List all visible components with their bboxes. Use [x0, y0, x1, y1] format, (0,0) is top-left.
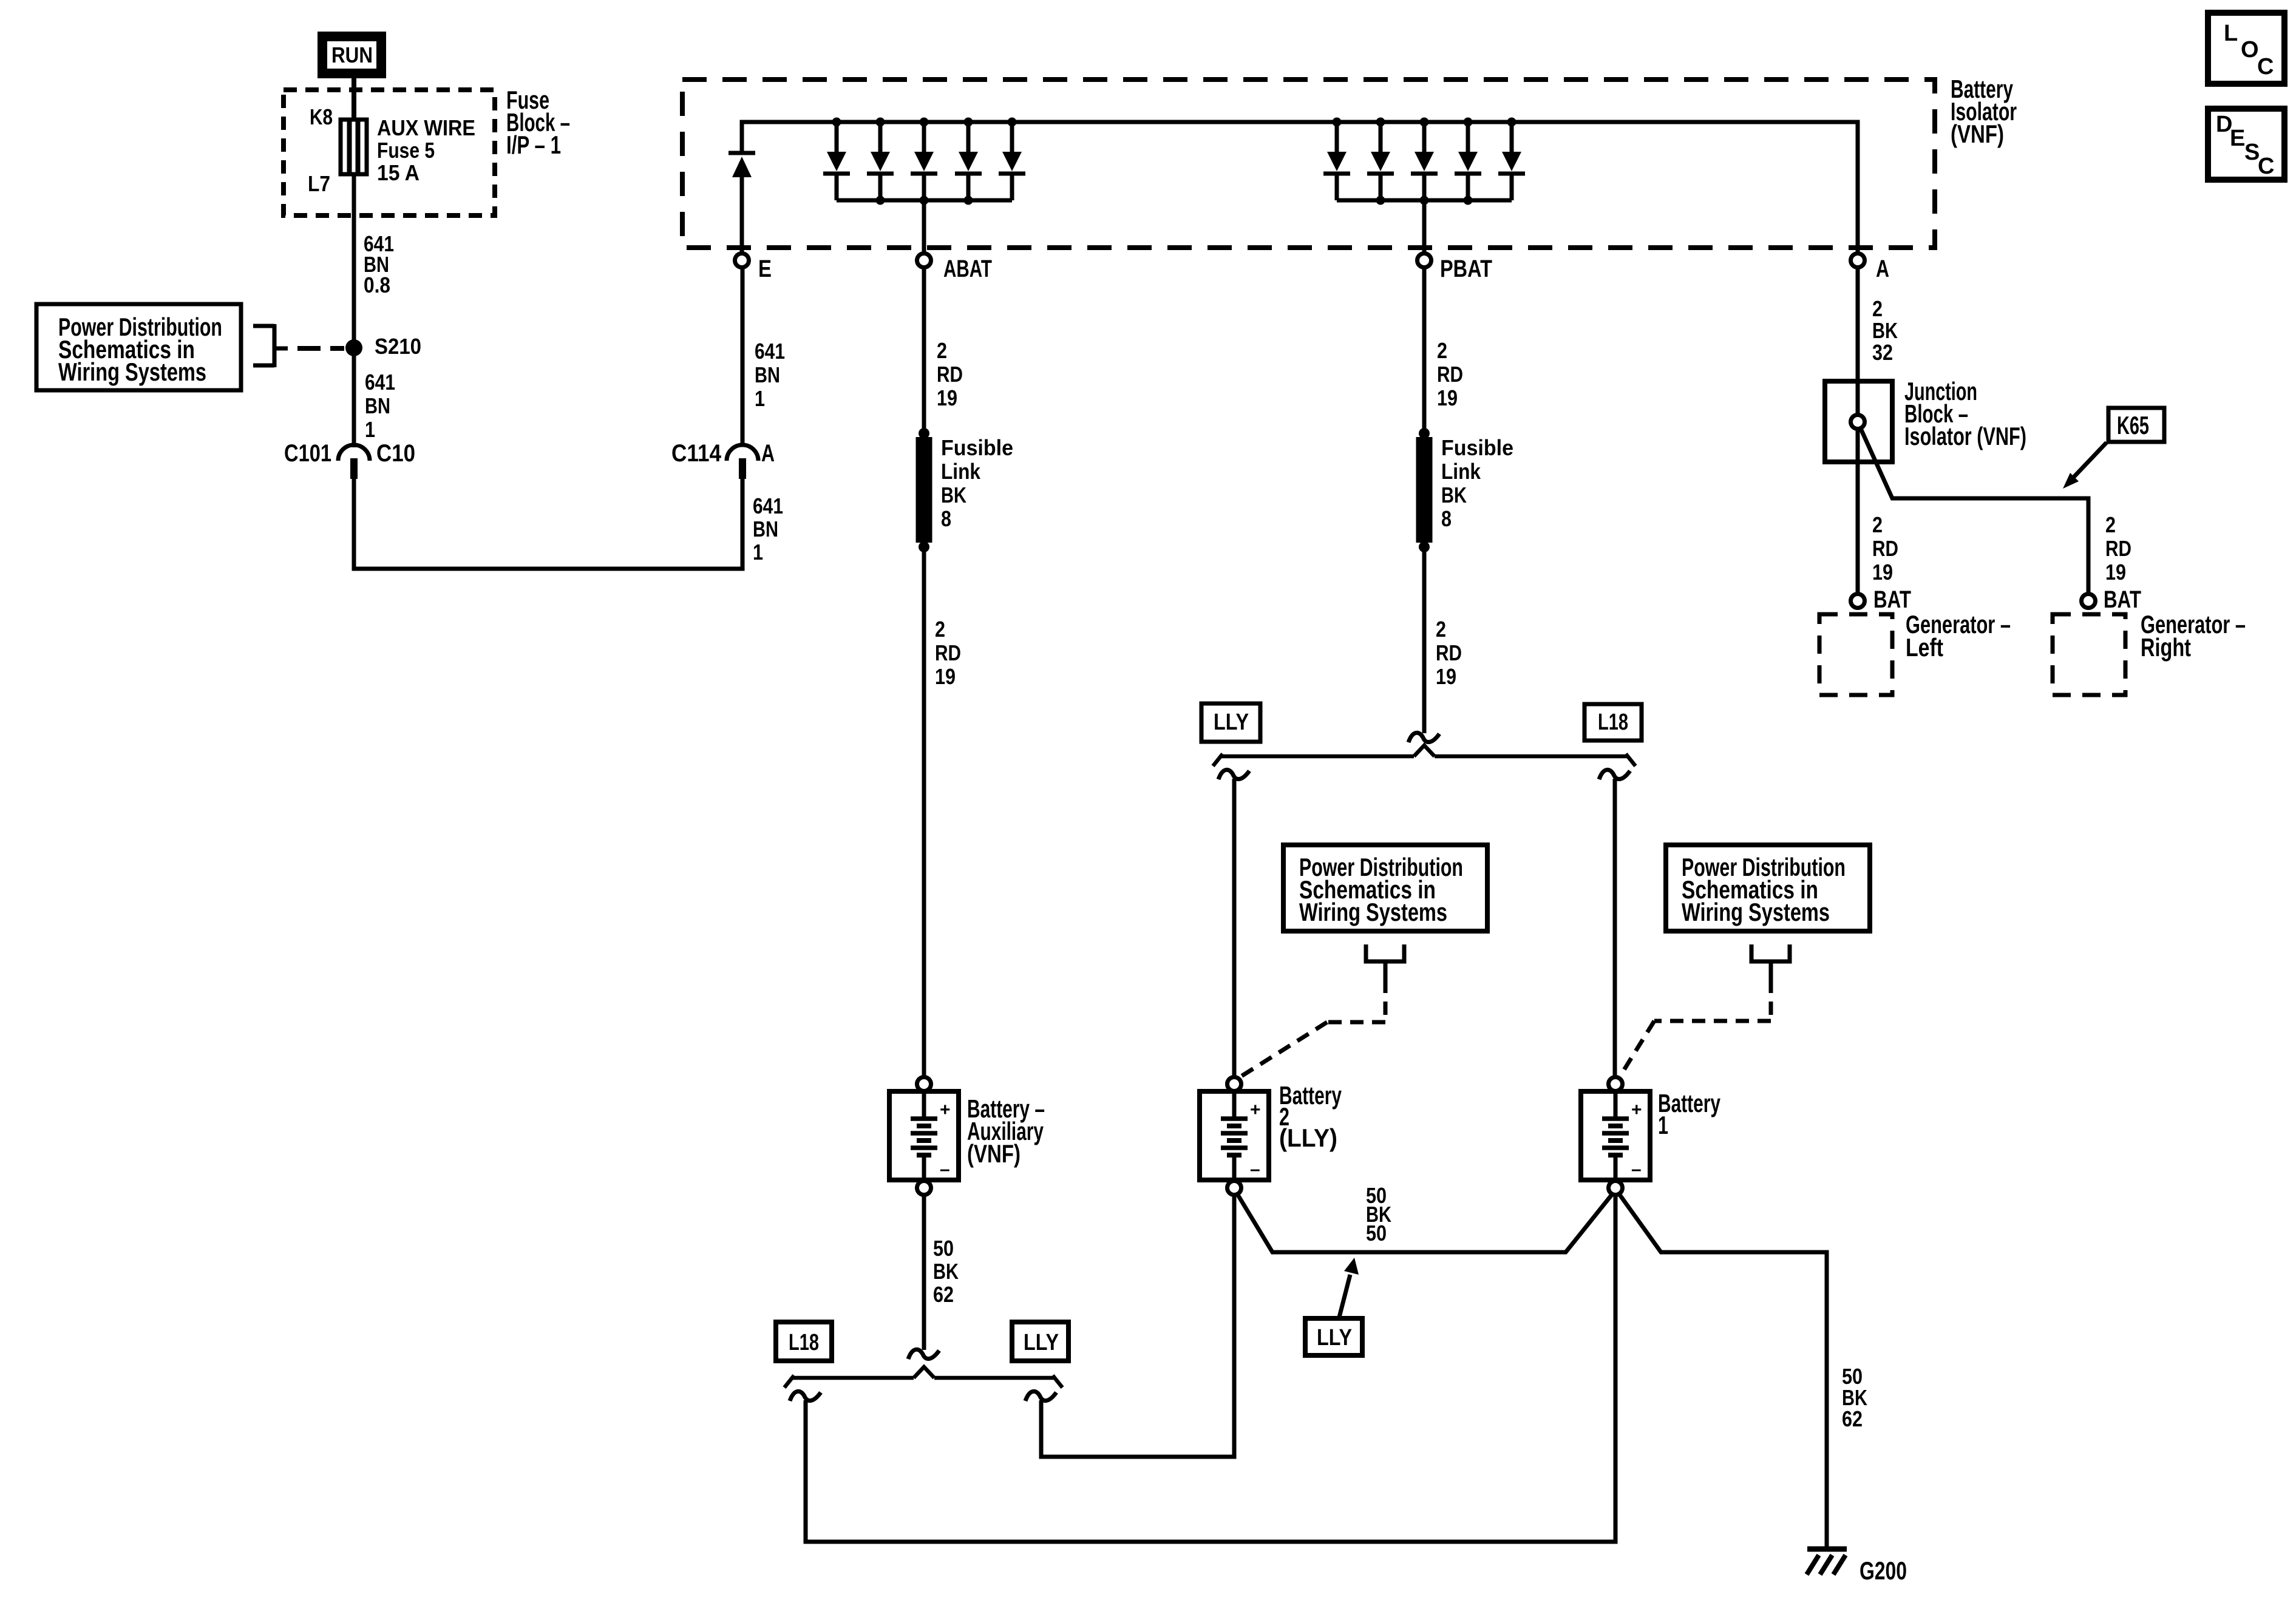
svg-text:I/P – 1: I/P – 1: [506, 131, 561, 159]
svg-text:Right: Right: [2141, 633, 2191, 662]
svg-text:–: –: [1631, 1159, 1642, 1179]
svg-text:C10: C10: [376, 440, 415, 467]
svg-text:1: 1: [753, 540, 763, 564]
svg-text:C114: C114: [671, 440, 722, 467]
svg-text:2: 2: [935, 617, 945, 642]
svg-text:50: 50: [933, 1236, 954, 1261]
svg-text:PBAT: PBAT: [1440, 256, 1492, 282]
svg-text:Fuse 5: Fuse 5: [377, 138, 435, 163]
svg-text:Wiring Systems: Wiring Systems: [1299, 898, 1447, 926]
svg-text:K8: K8: [310, 104, 333, 129]
svg-text:C: C: [2258, 154, 2274, 179]
svg-text:E: E: [758, 256, 772, 282]
svg-text:BN: BN: [755, 362, 780, 387]
svg-text:RD: RD: [1437, 362, 1463, 387]
svg-text:62: 62: [1842, 1406, 1863, 1431]
svg-text:(VNF): (VNF): [967, 1139, 1021, 1168]
svg-text:Link: Link: [941, 459, 981, 484]
svg-text:19: 19: [1436, 664, 1456, 689]
svg-text:BK: BK: [1872, 318, 1898, 343]
svg-text:L7: L7: [308, 171, 330, 196]
svg-text:Fusible: Fusible: [941, 435, 1013, 460]
svg-text:0.8: 0.8: [364, 273, 390, 297]
svg-text:C101: C101: [284, 440, 331, 467]
svg-text:50: 50: [1366, 1221, 1387, 1246]
svg-text:Link: Link: [1441, 459, 1481, 484]
svg-text:BAT: BAT: [2104, 586, 2141, 613]
svg-text:LLY: LLY: [1317, 1325, 1352, 1351]
svg-text:8: 8: [941, 506, 951, 531]
svg-text:2: 2: [937, 338, 947, 363]
svg-text:62: 62: [933, 1282, 954, 1307]
svg-text:19: 19: [1872, 560, 1893, 585]
svg-text:1: 1: [1658, 1111, 1668, 1139]
svg-text:ABAT: ABAT: [943, 256, 992, 282]
svg-text:RD: RD: [1436, 640, 1462, 665]
svg-text:641: 641: [753, 493, 783, 518]
svg-text:2: 2: [1436, 617, 1446, 642]
svg-text:Wiring Systems: Wiring Systems: [58, 358, 206, 386]
svg-text:RUN: RUN: [331, 42, 373, 67]
svg-text:RD: RD: [2105, 536, 2131, 561]
svg-text:LLY: LLY: [1024, 1330, 1059, 1355]
svg-text:2: 2: [1437, 338, 1447, 363]
svg-text:BN: BN: [365, 393, 390, 418]
svg-text:C: C: [2257, 54, 2274, 80]
svg-text:1: 1: [755, 386, 765, 411]
svg-text:15 A: 15 A: [377, 160, 419, 185]
svg-text:2: 2: [1872, 296, 1883, 321]
svg-text:641: 641: [365, 370, 395, 395]
svg-text:LLY: LLY: [1214, 710, 1249, 735]
svg-text:AUX WIRE: AUX WIRE: [377, 115, 475, 140]
svg-text:8: 8: [1441, 506, 1452, 531]
svg-text:G200: G200: [1860, 1556, 1907, 1585]
svg-text:BK: BK: [933, 1259, 959, 1284]
svg-text:Left: Left: [1906, 633, 1943, 662]
svg-text:O: O: [2241, 37, 2259, 63]
svg-text:Wiring Systems: Wiring Systems: [1682, 898, 1830, 926]
svg-text:BN: BN: [753, 517, 778, 541]
svg-text:K65: K65: [2117, 411, 2149, 439]
svg-text:RD: RD: [937, 362, 963, 387]
svg-text:32: 32: [1872, 340, 1893, 365]
svg-text:S210: S210: [375, 334, 421, 359]
svg-text:19: 19: [937, 385, 957, 410]
svg-text:A: A: [761, 440, 775, 467]
svg-text:RD: RD: [1872, 536, 1898, 561]
svg-text:19: 19: [935, 664, 956, 689]
svg-text:BK: BK: [1441, 483, 1467, 507]
svg-text:1: 1: [365, 417, 375, 442]
svg-text:Fusible: Fusible: [1441, 435, 1513, 460]
svg-text:(VNF): (VNF): [1951, 120, 2004, 148]
svg-text:(LLY): (LLY): [1279, 1124, 1337, 1152]
svg-text:19: 19: [1437, 385, 1458, 410]
svg-text:–: –: [1250, 1159, 1260, 1179]
svg-text:L18: L18: [789, 1330, 819, 1355]
svg-text:+: +: [1250, 1100, 1261, 1120]
svg-text:BAT: BAT: [1873, 586, 1911, 613]
svg-text:–: –: [940, 1159, 950, 1179]
svg-text:BK: BK: [941, 483, 966, 507]
svg-text:Isolator (VNF): Isolator (VNF): [1904, 422, 2026, 450]
svg-text:641: 641: [755, 339, 785, 364]
svg-text:E: E: [2230, 126, 2245, 151]
svg-text:+: +: [1631, 1100, 1642, 1120]
svg-text:L: L: [2224, 21, 2238, 46]
svg-text:2: 2: [2105, 512, 2116, 537]
svg-text:+: +: [940, 1100, 951, 1120]
svg-text:A: A: [1876, 256, 1889, 282]
svg-text:19: 19: [2105, 560, 2126, 585]
svg-text:RD: RD: [935, 640, 961, 665]
svg-text:2: 2: [1872, 512, 1883, 537]
svg-text:L18: L18: [1598, 710, 1628, 735]
